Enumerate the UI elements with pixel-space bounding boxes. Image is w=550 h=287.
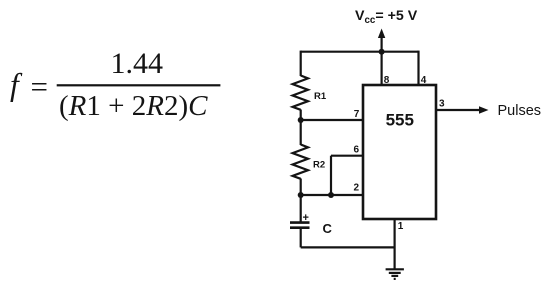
wire pin 7 <box>301 119 363 121</box>
svg-text:+: + <box>303 212 309 224</box>
wire pin 3 output arrow <box>436 106 489 114</box>
svg-text:C: C <box>323 221 333 236</box>
wire capacitor to bottom <box>300 229 302 248</box>
fraction bar <box>57 84 221 86</box>
wire R1 to pin7 junction <box>300 110 302 121</box>
resistor R2 <box>293 145 308 179</box>
svg-text:1.44: 1.44 <box>111 47 164 80</box>
wire pin 6 vertical <box>330 156 332 195</box>
ground <box>386 269 404 279</box>
wire pin 1 <box>394 219 396 269</box>
svg-text:2: 2 <box>354 183 360 194</box>
wire rail to capacitor <box>300 195 302 222</box>
svg-text:=: = <box>31 69 48 104</box>
wire pin 4 drop <box>417 51 419 85</box>
wire rail R1-R2 <box>300 120 302 145</box>
svg-text:555: 555 <box>386 111 414 130</box>
IC U1 555 box <box>363 85 436 219</box>
svg-text:R2: R2 <box>313 160 325 171</box>
wire pin 6 horizontal <box>331 155 363 157</box>
junction dot pin 6/2 <box>328 192 334 198</box>
resistor R1 <box>293 76 308 110</box>
svg-text:(R1 + 2R2)C: (R1 + 2R2)C <box>59 90 208 122</box>
svg-text:Vcc= +5 V: Vcc= +5 V <box>355 8 418 26</box>
Vcc arrow <box>378 29 385 52</box>
svg-text:6: 6 <box>354 145 360 156</box>
svg-text:R1: R1 <box>314 91 327 102</box>
wire pin 8 drop <box>381 52 383 85</box>
wire top rail <box>301 51 419 53</box>
svg-text:Pulses: Pulses <box>498 103 542 119</box>
wire bottom <box>301 246 395 248</box>
capacitor C <box>290 223 310 228</box>
svg-text:f: f <box>10 67 23 102</box>
svg-text:1: 1 <box>398 221 404 232</box>
wire left rail top <box>300 51 302 76</box>
wire R2 to pin2 junction <box>300 179 302 196</box>
junction dot Vcc <box>379 49 385 55</box>
junction dot pin 7 <box>298 117 304 123</box>
junction dot pin 2 rail <box>298 192 304 198</box>
wire pin 2 <box>301 194 363 196</box>
svg-text:3: 3 <box>439 99 445 110</box>
svg-text:7: 7 <box>354 109 360 120</box>
